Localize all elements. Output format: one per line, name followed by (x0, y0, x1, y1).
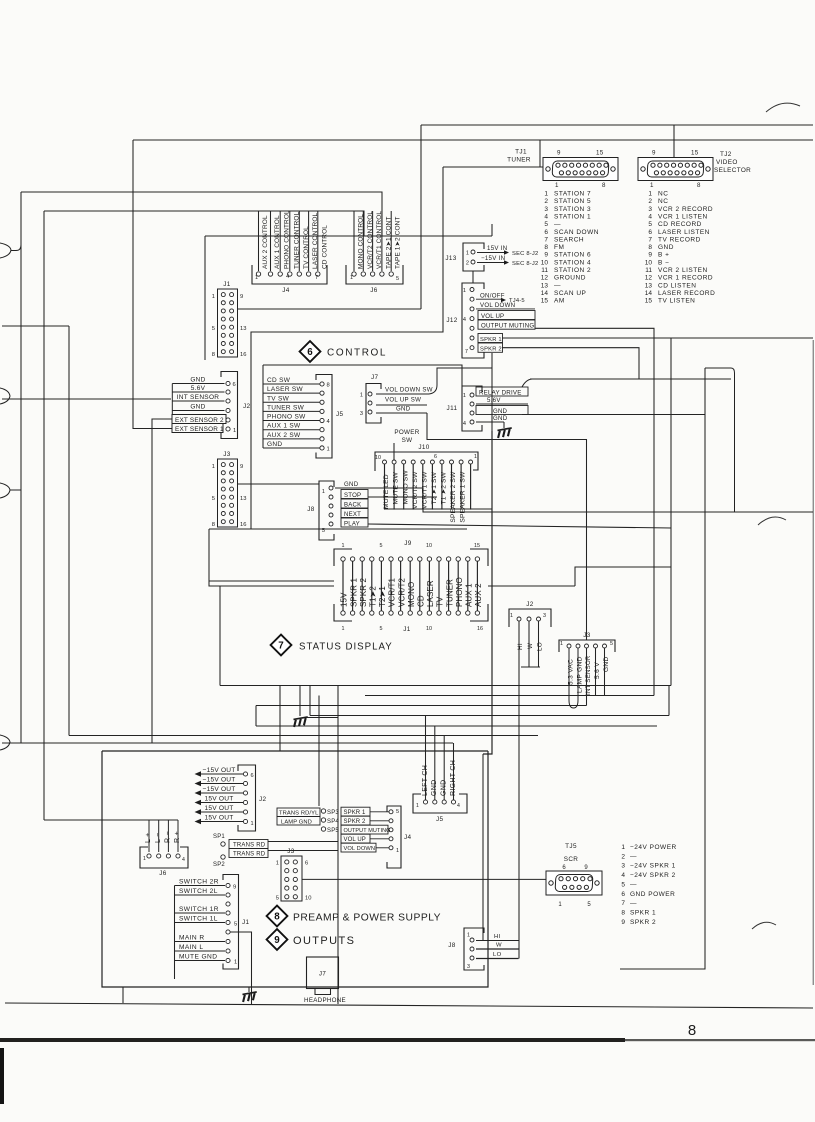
svg-text:MAIN R: MAIN R (179, 935, 204, 942)
svg-text:10: 10 (375, 455, 381, 461)
svg-text:4: 4 (457, 803, 460, 809)
svg-text:10: 10 (645, 259, 653, 266)
svg-text:3: 3 (543, 613, 546, 619)
svg-text:TJ5: TJ5 (565, 843, 577, 850)
svg-text:16: 16 (240, 522, 246, 528)
svg-text:4: 4 (286, 274, 289, 280)
section marker 6 CONTROL (300, 341, 321, 362)
svg-text:1: 1 (212, 464, 215, 470)
wire RELAY DRIVE curve to y379 (522, 379, 532, 387)
svg-text:15V OUT: 15V OUT (205, 795, 234, 802)
svg-text:NC: NC (658, 191, 668, 198)
wire POWER SW stub (393, 443, 395, 460)
svg-text:J2: J2 (259, 796, 267, 803)
left edge connector hook C (0, 483, 10, 498)
wire LEFT CH riser (425, 716, 427, 801)
page right edge artifact (812, 340, 814, 985)
svg-text:HEADPHONE: HEADPHONE (304, 997, 346, 1004)
svg-text:MONO SW: MONO SW (402, 470, 409, 505)
svg-text:6: 6 (621, 891, 625, 898)
svg-text:1: 1 (327, 447, 330, 453)
svg-text:J8: J8 (448, 942, 456, 949)
svg-text:AUX 2 SW: AUX 2 SW (267, 432, 301, 439)
svg-text:J3: J3 (583, 632, 591, 639)
svg-text:J12: J12 (446, 317, 457, 324)
svg-text:7: 7 (465, 349, 468, 355)
svg-text:AUX 1 SW: AUX 1 SW (267, 423, 301, 430)
svg-text:POWER: POWER (394, 429, 419, 436)
svg-text:RIGHT CH: RIGHT CH (450, 760, 457, 796)
svg-text:10: 10 (426, 626, 432, 632)
wire J1 to x421 riser (238, 308, 422, 310)
page curl mark top right (766, 103, 800, 112)
wire TRANS RD to x346 (268, 841, 338, 843)
svg-text:11: 11 (645, 267, 652, 274)
svg-text:J7: J7 (319, 971, 326, 978)
svg-text:TAPE 1➤2 CONT: TAPE 1➤2 CONT (395, 217, 402, 270)
svg-text:−15V OUT: −15V OUT (203, 786, 236, 793)
svg-text:SEC 8-J2: SEC 8-J2 (512, 251, 538, 257)
wire y529 line (209, 528, 467, 530)
wire INT SENSOR to page edge (2, 398, 171, 400)
svg-text:J3: J3 (223, 451, 231, 458)
svg-text:−15V IN: −15V IN (481, 255, 505, 262)
svg-text:8: 8 (212, 522, 215, 528)
svg-text:SPKR 1: SPKR 1 (349, 577, 358, 607)
status box outline upper (209, 529, 220, 586)
svg-text:VCR/T1: VCR/T1 (388, 578, 397, 607)
svg-text:VOL DOWN SW: VOL DOWN SW (385, 387, 433, 394)
svg-text:STATION 2: STATION 2 (554, 267, 591, 274)
wire bus y705 (256, 705, 587, 707)
svg-text:8: 8 (688, 1022, 696, 1039)
svg-text:J6: J6 (370, 287, 378, 294)
svg-text:13: 13 (240, 326, 246, 332)
svg-text:T1➤2: T1➤2 (369, 586, 378, 607)
wire J3 to TJ5 (302, 878, 548, 880)
svg-text:STATION 5: STATION 5 (554, 198, 591, 205)
wire x671 down (670, 338, 672, 686)
svg-text:14: 14 (645, 290, 653, 297)
svg-text:R −: R − (165, 831, 172, 843)
svg-text:TUNER: TUNER (445, 579, 454, 607)
svg-text:OUTPUT MUTING: OUTPUT MUTING (344, 828, 391, 834)
svg-text:TUNER: TUNER (507, 157, 531, 164)
svg-text:1: 1 (212, 294, 215, 300)
svg-text:GND: GND (190, 404, 205, 411)
svg-text:VOL DOWN: VOL DOWN (480, 302, 515, 309)
svg-text:—: — (554, 221, 561, 228)
connector J10 (switch header) (375, 444, 478, 523)
wire GND down (604, 648, 606, 696)
svg-text:4: 4 (463, 317, 466, 323)
svg-text:8: 8 (212, 352, 215, 358)
wire J6 to bus (403, 235, 421, 237)
svg-text:12: 12 (645, 275, 653, 282)
wire bus y192 (21, 192, 382, 236)
svg-text:SWITCH 2R: SWITCH 2R (179, 879, 219, 886)
wire STOP stub (368, 496, 437, 498)
svg-text:−24V POWER: −24V POWER (630, 844, 677, 851)
svg-text:STATION 1: STATION 1 (554, 213, 591, 220)
svg-text:15: 15 (596, 150, 604, 157)
connector TJ1 TUNER (507, 149, 618, 190)
svg-text:CD RECORD: CD RECORD (658, 221, 702, 228)
svg-text:J9: J9 (404, 540, 412, 547)
svg-text:GROUND: GROUND (554, 275, 586, 282)
svg-text:1: 1 (621, 844, 625, 851)
svg-text:8: 8 (697, 182, 701, 189)
wire vertical x44 (43, 211, 45, 820)
svg-text:6: 6 (307, 347, 313, 358)
wire stub x310 (309, 686, 311, 716)
svg-text:1: 1 (234, 960, 237, 966)
wire J2 meter HI down to J8 out (518, 621, 520, 959)
status box outline (220, 585, 334, 587)
ground under J9 (299, 686, 301, 717)
svg-text:GND: GND (396, 406, 411, 413)
section marker 8 PREAMP & POWER SUPPLY (267, 906, 288, 927)
svg-text:7: 7 (278, 640, 284, 651)
svg-text:R +: R + (174, 831, 181, 843)
svg-text:3: 3 (621, 863, 625, 870)
wire stub x256 (255, 706, 257, 727)
svg-text:7: 7 (621, 900, 625, 907)
svg-text:LO: LO (537, 642, 544, 651)
left edge connector hook B (0, 388, 10, 404)
svg-text:MAIN L: MAIN L (179, 944, 203, 951)
svg-text:16: 16 (477, 626, 483, 632)
svg-text:VCR 1 RECORD: VCR 1 RECORD (658, 275, 713, 282)
svg-text:PREAMP & POWER SUPPLY: PREAMP & POWER SUPPLY (293, 913, 441, 924)
svg-text:STATUS DISPLAY: STATUS DISPLAY (299, 642, 393, 653)
svg-text:T2➤1: T2➤1 (378, 586, 387, 607)
wire EXT SENSOR 2 drop x152 (152, 419, 172, 743)
wire vertical x133 to EXT SENSOR 1 (133, 140, 172, 429)
svg-text:14: 14 (541, 290, 549, 297)
svg-text:5: 5 (212, 496, 215, 502)
svg-text:5: 5 (396, 809, 399, 815)
wire GND to x705 (522, 414, 705, 416)
svg-text:1: 1 (350, 275, 353, 281)
svg-text:VCR 1 LISTEN: VCR 1 LISTEN (658, 213, 708, 220)
svg-text:GND: GND (267, 441, 282, 448)
svg-text:5: 5 (234, 922, 237, 928)
svg-text:SPKR 1: SPKR 1 (480, 337, 502, 343)
svg-text:1: 1 (463, 393, 466, 399)
svg-text:LASER RECORD: LASER RECORD (658, 290, 715, 297)
left edge connector hook A (0, 243, 11, 258)
svg-text:6: 6 (648, 229, 652, 236)
svg-text:AM: AM (554, 298, 565, 305)
svg-text:NC: NC (658, 198, 668, 205)
svg-text:LASER LISTEN: LASER LISTEN (658, 229, 710, 236)
svg-text:1: 1 (342, 543, 345, 549)
wire ground run to x338 (307, 717, 338, 719)
svg-text:EXT SENSOR 1: EXT SENSOR 1 (175, 426, 224, 433)
svg-text:SCAN DOWN: SCAN DOWN (554, 229, 599, 236)
svg-text:2: 2 (544, 198, 548, 205)
svg-text:LEFT CH: LEFT CH (422, 765, 429, 796)
svg-text:1: 1 (416, 803, 419, 809)
svg-text:8: 8 (544, 244, 548, 251)
svg-text:SP4: SP4 (327, 819, 339, 825)
wire vertical x443 into control box corner (251, 167, 443, 529)
svg-text:J13: J13 (445, 255, 456, 262)
svg-text:7: 7 (315, 275, 318, 281)
svg-text:RELAY DRIVE: RELAY DRIVE (479, 389, 522, 396)
svg-text:EXT SENSOR 2: EXT SENSOR 2 (175, 417, 224, 424)
svg-text:9: 9 (233, 885, 236, 891)
connector J6 control header (346, 211, 403, 294)
section marker 7 STATUS DISPLAY (271, 635, 292, 656)
ground near J11 (497, 428, 513, 438)
svg-text:T1 ➤2 SW: T1 ➤2 SW (441, 471, 448, 504)
left edge hook stub C (10, 489, 21, 491)
svg-text:8: 8 (327, 383, 330, 389)
svg-text:1: 1 (650, 182, 654, 189)
svg-text:1: 1 (255, 275, 258, 281)
svg-text:1: 1 (322, 489, 325, 495)
wire vertical x69 (68, 326, 70, 736)
svg-text:SPEAKER 2 SW: SPEAKER 2 SW (450, 471, 457, 523)
svg-text:SPKR 2: SPKR 2 (480, 347, 502, 353)
wire arc corner to x734 (731, 368, 735, 512)
connector J8 (meter out) (448, 928, 518, 970)
svg-text:STATION 7: STATION 7 (554, 191, 591, 198)
svg-text:TJ1: TJ1 (515, 149, 527, 156)
svg-text:TRANS RD: TRANS RD (233, 852, 266, 858)
svg-text:VIDEO: VIDEO (716, 159, 738, 166)
connector J8 (transport keys) (307, 481, 368, 540)
svg-text:VCR/T2: VCR/T2 (397, 578, 406, 607)
svg-text:J4: J4 (404, 834, 412, 841)
svg-text:6: 6 (233, 382, 236, 388)
svg-text:3: 3 (360, 411, 363, 417)
svg-text:SP3: SP3 (327, 810, 339, 816)
svg-text:−24V SPKR 1: −24V SPKR 1 (630, 863, 676, 870)
svg-text:9: 9 (621, 919, 625, 926)
svg-text:TV SW: TV SW (267, 395, 290, 402)
svg-text:4: 4 (182, 857, 185, 863)
svg-text:TRANS RD: TRANS RD (233, 843, 266, 849)
svg-text:L +: L + (145, 832, 152, 843)
svg-text:1: 1 (276, 861, 279, 867)
svg-text:SPKR 1: SPKR 1 (630, 909, 656, 916)
svg-text:1: 1 (467, 933, 470, 939)
wire J10 bottom bus (384, 508, 492, 510)
wire VOL DOWN SW riser (429, 368, 492, 394)
svg-text:CD: CD (417, 595, 426, 607)
wire J2 meter W LO stubs (528, 621, 530, 667)
wire lower long line to page edge (122, 987, 124, 1003)
svg-text:PHONO: PHONO (455, 577, 464, 607)
svg-text:BACK: BACK (344, 501, 361, 508)
wire J12 riser to J9 (491, 353, 493, 431)
svg-text:15V OUT: 15V OUT (205, 805, 234, 812)
svg-text:TV RECORD: TV RECORD (658, 236, 701, 243)
svg-text:−15V OUT: −15V OUT (203, 776, 236, 783)
wire bus y125 to page right (421, 124, 813, 126)
svg-text:1: 1 (233, 428, 236, 434)
svg-text:J1: J1 (403, 626, 411, 633)
wire x319 to TRANS RD/YL (318, 696, 320, 807)
svg-text:10: 10 (305, 896, 311, 902)
wire y326 from page edge (2, 325, 69, 327)
svg-text:J7: J7 (371, 374, 379, 381)
connector J12 (front panel) (446, 283, 535, 358)
svg-text:5: 5 (212, 326, 215, 332)
connector J5 (power amp in) (413, 760, 467, 823)
svg-text:1: 1 (560, 641, 563, 647)
wire y581 to J9 (209, 580, 334, 582)
svg-text:STATION 4: STATION 4 (554, 259, 591, 266)
wire SPKR 2 to x639 (502, 348, 639, 379)
wire INT SENSOR down (586, 648, 588, 706)
svg-text:MUTE GND: MUTE GND (179, 954, 217, 961)
svg-text:NEXT: NEXT (344, 511, 361, 518)
svg-text:SP5: SP5 (327, 828, 339, 834)
svg-text:8: 8 (648, 244, 652, 251)
wire RIGHT CH riser (453, 743, 455, 800)
svg-text:9: 9 (274, 935, 280, 946)
svg-text:3: 3 (544, 206, 548, 213)
wire x483 from J12 riser (482, 754, 484, 940)
svg-text:9: 9 (648, 252, 652, 259)
svg-text:1: 1 (143, 856, 146, 862)
wire SPKR 1 to page edge (502, 337, 813, 339)
svg-text:3: 3 (648, 206, 652, 213)
connector J1 (speaker switches) (175, 875, 250, 980)
connector J1 (control) (212, 281, 247, 358)
svg-text:9: 9 (240, 464, 243, 470)
svg-text:LASER: LASER (426, 580, 435, 607)
svg-text:SCR: SCR (564, 856, 579, 863)
terminal SP3 TRANS RD/YL (277, 808, 339, 817)
svg-text:1: 1 (648, 191, 652, 198)
svg-text:SEC 8-J2: SEC 8-J2 (512, 261, 538, 267)
svg-text:SEARCH: SEARCH (554, 236, 584, 243)
page curl mark bottom right (752, 922, 776, 929)
svg-text:15: 15 (691, 150, 699, 157)
wire vertical x421 down to J1 feed (420, 125, 422, 309)
wire GND riser b (443, 736, 445, 801)
svg-text:SPKR 2: SPKR 2 (630, 919, 656, 926)
svg-text:VOL UP: VOL UP (344, 837, 366, 843)
svg-text:CD LISTEN: CD LISTEN (658, 282, 696, 289)
svg-text:J1: J1 (242, 919, 250, 926)
svg-text:STOP: STOP (344, 492, 361, 499)
svg-text:9: 9 (544, 252, 548, 259)
svg-text:2: 2 (648, 198, 652, 205)
svg-text:5.6V: 5.6V (487, 397, 501, 404)
svg-text:GND: GND (431, 780, 438, 796)
svg-text:1: 1 (544, 191, 548, 198)
svg-text:1: 1 (360, 393, 363, 399)
svg-text:6: 6 (305, 861, 308, 867)
TJ1 pin list (541, 191, 599, 305)
svg-text:6: 6 (544, 229, 548, 236)
svg-text:W: W (527, 643, 534, 649)
status box top jog (575, 567, 671, 586)
svg-text:4: 4 (544, 213, 548, 220)
svg-text:SPKR 2: SPKR 2 (344, 819, 367, 825)
svg-text:13: 13 (240, 496, 246, 502)
svg-text:1: 1 (463, 288, 466, 294)
svg-text:J11: J11 (447, 405, 458, 412)
connector J6 (speaker out) (140, 820, 188, 877)
svg-text:VCR/T2 SW: VCR/T2 SW (412, 471, 419, 509)
connector J7 (headphone jack) (304, 957, 346, 1004)
preamp section box (102, 751, 488, 987)
svg-text:SWITCH 2L: SWITCH 2L (179, 888, 218, 895)
connector TJ2 VIDEO SELECTOR (638, 150, 751, 190)
svg-text:LO: LO (493, 952, 502, 958)
svg-text:5: 5 (648, 221, 652, 228)
wire control inner box edge y365 (263, 365, 462, 386)
svg-text:AUX 2: AUX 2 (474, 583, 483, 607)
left edge hook stub A (11, 245, 21, 251)
wire GND riser a (434, 726, 436, 800)
wire x338 long vertical (337, 686, 339, 1005)
section marker 9 OUTPUTS (267, 929, 288, 950)
wire bus y726 (256, 725, 657, 727)
svg-text:GND: GND (493, 415, 508, 422)
svg-text:SPKR 2: SPKR 2 (359, 577, 368, 607)
svg-text:7: 7 (544, 236, 548, 243)
terminal SP5 (321, 827, 339, 834)
connector TJ5 SCR (546, 843, 602, 908)
svg-text:13: 13 (541, 282, 549, 289)
svg-text:5: 5 (276, 896, 279, 902)
svg-text:B −: B − (658, 259, 669, 266)
svg-text:J4: J4 (282, 287, 290, 294)
wire J7 GND run to J3 lamp INT SENSOR (427, 413, 587, 640)
svg-text:2: 2 (621, 853, 625, 860)
page curl mark mid right (758, 517, 786, 525)
connector J9-J1 (status display header) (334, 540, 488, 633)
svg-text:1: 1 (396, 848, 399, 854)
svg-text:HI: HI (517, 643, 524, 650)
svg-text:3: 3 (467, 964, 470, 970)
svg-text:CD SW: CD SW (267, 377, 291, 384)
wire PLAY run (368, 524, 671, 528)
wire 5.6V down (595, 648, 597, 696)
svg-text:5: 5 (380, 626, 383, 632)
svg-text:9: 9 (557, 150, 561, 157)
wire J13 to J12 (472, 271, 474, 283)
svg-text:STATION 3: STATION 3 (554, 206, 591, 213)
svg-text:1: 1 (466, 251, 469, 257)
page bottom rule (0, 1038, 625, 1042)
wire x44 into J6 header (44, 819, 178, 821)
ground bottom preamp (248, 987, 250, 992)
svg-text:J6: J6 (159, 870, 167, 877)
svg-text:TRANS RD/YL: TRANS RD/YL (279, 811, 319, 817)
TJ5 pin list (621, 844, 676, 926)
svg-text:4: 4 (463, 421, 466, 427)
svg-text:CD CONTROL: CD CONTROL (321, 225, 328, 269)
svg-text:7: 7 (648, 236, 652, 243)
connector J3 (lamp) (559, 632, 615, 695)
svg-text:VOL DOWN: VOL DOWN (344, 846, 376, 852)
svg-text:5: 5 (544, 221, 548, 228)
page bottom left black mark (0, 1048, 4, 1104)
svg-text:9: 9 (652, 150, 656, 157)
svg-text:15V OUT: 15V OUT (205, 814, 234, 821)
svg-text:SW: SW (402, 437, 413, 444)
svg-text:VCR 2 RECORD: VCR 2 RECORD (658, 206, 713, 213)
